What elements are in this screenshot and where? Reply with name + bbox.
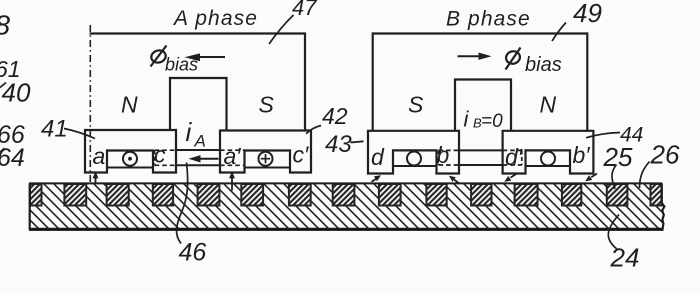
air-gap flux arrow under tooth d' (down-left): [511, 174, 517, 178]
svg-text:=0: =0: [481, 111, 503, 132]
svg-text:bias: bias: [525, 54, 562, 76]
platen slot filler 5: [198, 184, 220, 206]
svg-text:N: N: [121, 92, 138, 118]
air-gap flux arrow under tooth b' (down-left): [591, 174, 597, 178]
svg-text:26: 26: [650, 140, 680, 170]
platen slot filler 9: [379, 184, 401, 206]
svg-text:42: 42: [322, 103, 348, 129]
B-phase magnet center post: [455, 80, 511, 131]
platen top surface line: [29, 182, 662, 184]
A-phase right coil symbol (current into page, plus): [259, 152, 273, 166]
phi symbol (B phase): [505, 48, 522, 70]
svg-text:47: 47: [292, 0, 317, 20]
platen slot filler 11: [471, 184, 491, 206]
platen left end edge: [29, 183, 31, 230]
svg-text:B phase: B phase: [446, 8, 531, 31]
B-phase left coil window bottom: [393, 165, 437, 167]
B-phase coil hidden outline (dashed through teeth b and d'): [439, 150, 522, 165]
platen bottom edge: [29, 228, 664, 231]
svg-text:S: S: [408, 92, 424, 118]
svg-text:a: a: [93, 143, 106, 169]
svg-text:8: 8: [0, 10, 11, 41]
B-phase bias flux arrow (points right): [458, 55, 481, 57]
air-gap flux arrow under tooth a' (up): [231, 176, 233, 191]
svg-text:bias: bias: [165, 55, 198, 75]
svg-text:49: 49: [573, 0, 602, 28]
A-phase left coil symbol (current out of page, dot): [123, 152, 137, 166]
A-phase right coil window bottom: [245, 167, 291, 169]
svg-text:d′: d′: [505, 144, 523, 170]
svg-text:a′: a′: [224, 143, 242, 169]
B-phase right pole piece 44 (teeth d', b'): [503, 131, 594, 174]
platen slot filler 6: [241, 184, 263, 206]
svg-text:46: 46: [179, 239, 207, 267]
A-phase magnet yoke 47 (top edge + right edge): [90, 34, 306, 131]
platen slot filler 15: [651, 184, 662, 206]
B-phase magnet yoke 49: [373, 34, 588, 131]
svg-text:40: 40: [2, 78, 31, 108]
A-phase bias flux arrow (points left): [199, 56, 225, 58]
A-phase left pole piece 41 (teeth a, c): [85, 130, 176, 173]
svg-text:b′: b′: [573, 142, 591, 168]
svg-text:i: i: [464, 107, 470, 132]
svg-text:d: d: [371, 144, 385, 170]
platen slot filler 14 (pointed by 25): [607, 184, 628, 206]
air-gap flux arrow under tooth b (up-left): [454, 179, 459, 183]
svg-text:A phase: A phase: [172, 7, 258, 30]
svg-text:b: b: [437, 142, 450, 168]
platen slot filler 7: [289, 184, 311, 206]
B-phase right coil window bottom: [526, 165, 571, 167]
A-phase magnet center post: [170, 78, 227, 130]
platen 24 (toothed bar body, hatched): [29, 184, 662, 230]
platen slot filler 10: [426, 184, 446, 206]
svg-text:43: 43: [325, 131, 352, 158]
A-phase left coil window bottom: [107, 167, 153, 169]
A-phase right pole piece 42 (teeth a', c'): [220, 131, 311, 173]
platen right end edge: [662, 183, 665, 230]
svg-text:41: 41: [41, 116, 68, 143]
platen slot filler 4: [153, 184, 173, 206]
B-phase connecting bar between poles: [459, 150, 503, 165]
platen slot filler 13: [562, 184, 581, 206]
B-phase right coil symbol (no current): [541, 152, 555, 166]
svg-text:A: A: [194, 132, 206, 151]
svg-text:N: N: [540, 92, 557, 118]
platen slot filler 8: [333, 184, 355, 206]
A-phase left section cut line (dash-dot): [89, 25, 91, 183]
platen slot filler 3: [107, 184, 129, 206]
A-phase flux arrow in bar (points left): [199, 158, 219, 160]
svg-text:c: c: [154, 142, 166, 168]
svg-text:25: 25: [603, 142, 633, 172]
air-gap flux arrow under tooth d (up-right): [372, 179, 377, 182]
A-phase coil hidden outline (dashed through teeth c and a'): [155, 150, 245, 165]
platen slot filler 2: [64, 184, 86, 206]
phi symbol (A phase): [150, 46, 167, 67]
svg-text:c′: c′: [293, 142, 310, 168]
B-phase left coil symbol (no current): [407, 152, 421, 166]
svg-text:i: i: [186, 117, 193, 147]
air-gap flux arrow under tooth a (up): [95, 176, 97, 183]
svg-text:S: S: [259, 92, 275, 118]
platen slot filler 12: [515, 184, 538, 206]
B-phase left pole piece 43 (teeth d, b): [368, 131, 459, 174]
platen slot filler 1: [30, 184, 42, 206]
A-phase connecting bar between poles: [176, 150, 220, 165]
